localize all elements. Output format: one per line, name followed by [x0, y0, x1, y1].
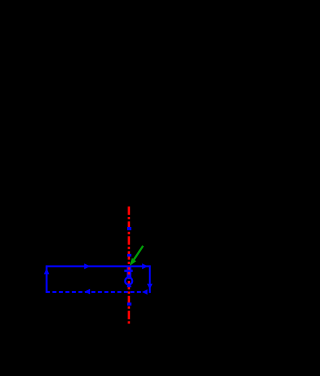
- current arrow on bottom side, middle (points left): [84, 289, 90, 295]
- coil right side (solid blue): [149, 265, 151, 293]
- coil bottom side cd (dashed blue, hidden edge): [46, 291, 151, 293]
- rotation symbol stem (blue, under axis): [127, 267, 132, 278]
- axis tick mark 3 (blue square on axis, below circle): [127, 286, 131, 288]
- rotation symbol crossbar (blue, over axis): [124, 270, 132, 272]
- axis tick mark 4 (blue square on axis, lower): [127, 303, 131, 306]
- field vector shaft (green, pointing down-left toward axis): [134, 246, 143, 260]
- coil left side (solid blue): [46, 265, 48, 293]
- axis tick mark 1 (blue square on axis, upper): [127, 227, 131, 230]
- current arrow on left side (points up): [44, 268, 49, 274]
- current arrow on bottom side, near right corner (points left): [142, 289, 148, 295]
- current arrow on top side, near right corner (points right): [142, 263, 148, 269]
- coil top side ab (solid blue): [46, 265, 151, 267]
- rotation axis OO' (red dash-dot vertical line): [128, 207, 130, 326]
- rotation symbol circle (small blue ring on axis): [125, 277, 132, 284]
- axis tick mark 2 (blue square on axis, above coil): [127, 254, 131, 257]
- current arrow on right side (points down): [147, 284, 153, 289]
- current arrow on top side, middle (points right): [84, 263, 90, 269]
- field vector arrowhead (green): [130, 258, 137, 266]
